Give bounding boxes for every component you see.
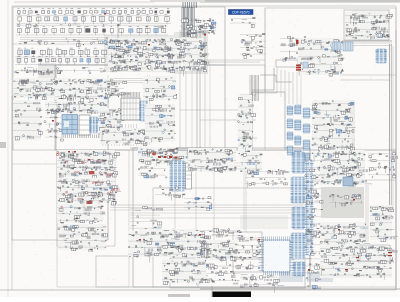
key matrix 2 xyxy=(128,231,205,263)
shaded region speaker block xyxy=(321,187,364,218)
connector lower xyxy=(138,166,167,178)
red mark xyxy=(139,239,141,241)
key matrix xyxy=(58,224,108,252)
wire xyxy=(340,45,392,47)
shaded region top right xyxy=(352,10,390,41)
wire xyxy=(340,42,392,44)
AC inlet block xyxy=(320,245,397,280)
motor driver row xyxy=(56,150,119,181)
wire xyxy=(20,37,105,39)
wire xyxy=(292,72,294,104)
wire xyxy=(288,72,290,104)
wire xyxy=(130,249,310,251)
IC IC803 bank (highlighted) xyxy=(303,108,311,161)
IC302 pin row xyxy=(62,135,102,139)
data bus to display xyxy=(182,7,194,37)
wire xyxy=(395,30,397,290)
ribbon bus down A xyxy=(280,272,302,282)
IC IC302 (highlighted grid) xyxy=(62,115,78,135)
IC IC801 bank (highlighted) xyxy=(287,106,294,155)
shaded region servo block xyxy=(104,35,204,72)
syscon IC301 area xyxy=(13,78,119,103)
red mark xyxy=(388,252,392,253)
label specks band xyxy=(16,24,166,33)
regulators xyxy=(319,222,370,260)
wire xyxy=(0,289,200,291)
right edge mid xyxy=(370,205,398,242)
right edge upper xyxy=(368,151,398,178)
relay (highlighted) xyxy=(343,177,353,186)
red part rows xyxy=(296,62,308,71)
blue label rows xyxy=(184,197,212,211)
IC row 1 xyxy=(16,8,171,16)
left of IC302 xyxy=(44,117,66,142)
servo amp IC202 xyxy=(108,38,208,76)
wire xyxy=(204,28,206,148)
power supply sec xyxy=(320,150,372,187)
syscon row2 xyxy=(45,101,110,115)
RF amp right xyxy=(312,100,355,148)
wire xyxy=(212,165,250,167)
transistor box xyxy=(233,232,262,272)
wire xyxy=(213,155,215,258)
red mark xyxy=(199,234,201,236)
IC IC601 (highlighted) xyxy=(376,49,388,63)
section frame center xyxy=(55,65,265,150)
shaded region 38-72 left xyxy=(38,63,56,80)
wire xyxy=(100,80,176,82)
wire xyxy=(212,162,250,164)
wire xyxy=(130,217,310,219)
IC IC305 (main servo) xyxy=(121,98,140,120)
IC305 top pins xyxy=(122,92,140,97)
wire drops below IC305 xyxy=(103,124,137,146)
IC IC706 (highlighted) xyxy=(293,262,306,276)
left ic col cluster xyxy=(195,240,239,266)
IC IC303 xyxy=(79,115,90,135)
shaded region right mid2 xyxy=(322,138,355,165)
page left edge line xyxy=(7,0,9,297)
wire xyxy=(107,75,109,240)
IC IC702 (highlighted) xyxy=(292,152,306,173)
section frame left tall xyxy=(12,96,108,240)
box bottom center xyxy=(170,258,305,288)
driver discrete xyxy=(57,178,121,206)
wire xyxy=(185,32,187,148)
wire xyxy=(389,44,391,210)
red mark xyxy=(258,239,260,241)
shaded region tuner sub xyxy=(174,32,208,74)
wire xyxy=(245,150,247,232)
empty box center xyxy=(252,92,285,150)
wire xyxy=(199,30,201,148)
resistor row right xyxy=(158,148,198,161)
power regulator block2 xyxy=(280,36,308,62)
shaded region mid band xyxy=(150,147,202,163)
red mark xyxy=(356,257,359,258)
dsp right parts xyxy=(305,152,328,289)
section frame bottom left2 xyxy=(57,150,129,287)
censor bar (black) xyxy=(213,292,252,298)
corner parts xyxy=(108,82,130,98)
wire xyxy=(110,204,310,206)
transistor box parts xyxy=(234,235,263,270)
tuner pack cluster xyxy=(345,12,393,40)
IC IC401 (highlighted) xyxy=(170,161,186,191)
jack board xyxy=(162,259,209,285)
wire xyxy=(174,180,176,232)
bus strip (highlighted) xyxy=(305,160,314,255)
filter block right xyxy=(318,126,356,151)
section frame bottom right xyxy=(310,150,396,287)
wire xyxy=(117,24,119,38)
title block (blue) xyxy=(229,10,254,15)
IC IC402 tall xyxy=(186,163,192,189)
section frame bottom mid inner xyxy=(153,188,310,287)
wire xyxy=(296,72,298,104)
IF block cluster xyxy=(298,38,345,76)
red mark xyxy=(88,159,90,161)
red mark xyxy=(308,269,310,271)
wire xyxy=(110,207,310,209)
wire xyxy=(110,209,310,211)
mechanism connector xyxy=(138,147,178,166)
bottom gray smudge xyxy=(168,294,190,297)
wire xyxy=(147,75,149,145)
label row blue xyxy=(195,229,242,241)
speaker text block xyxy=(329,194,362,207)
section frame right xyxy=(265,8,396,150)
upper ram parts xyxy=(55,86,108,102)
box bottom left xyxy=(96,256,198,287)
wire xyxy=(252,68,274,90)
wire xyxy=(130,212,310,214)
discrete row mid2 xyxy=(145,104,176,143)
red mark xyxy=(388,255,392,256)
wire xyxy=(170,59,265,61)
AC box xyxy=(360,245,390,261)
discrete row mid xyxy=(143,76,177,101)
servo sub box xyxy=(112,42,158,58)
display driver IC501 xyxy=(180,17,216,39)
lower left sparse xyxy=(130,206,162,235)
wire xyxy=(390,44,392,210)
shaded region above dsp xyxy=(240,215,288,229)
dsp upper cluster xyxy=(188,148,237,172)
wire xyxy=(224,7,226,150)
IC IC602 (light blue) xyxy=(332,42,353,51)
wire xyxy=(284,70,286,100)
below transistor box xyxy=(195,263,241,285)
wire xyxy=(340,40,392,42)
connector CN501 xyxy=(197,23,216,33)
wire xyxy=(367,185,369,242)
IC row 5 xyxy=(15,56,107,64)
wire xyxy=(340,74,396,76)
IC IC705 (highlighted) xyxy=(291,233,306,259)
red mark xyxy=(52,120,54,122)
IC row 2 xyxy=(16,14,171,23)
wire xyxy=(12,163,57,165)
power regulator block xyxy=(240,33,266,58)
shaded region right mid xyxy=(312,100,355,142)
wire xyxy=(100,78,176,80)
under title parts xyxy=(230,17,256,27)
IC IC701 system LSI xyxy=(259,237,295,276)
red mark xyxy=(148,44,150,46)
wire xyxy=(149,75,151,145)
wire xyxy=(243,150,245,230)
wire band under rows xyxy=(18,38,160,47)
red mark xyxy=(353,199,355,201)
ribbon bundle xyxy=(250,75,258,101)
wire xyxy=(56,149,310,151)
transistor pair group xyxy=(155,186,185,201)
red mark xyxy=(338,229,340,231)
IC IC703 (highlighted) xyxy=(291,177,306,203)
IC pin column xyxy=(198,244,208,258)
IC IC802 bank (highlighted) xyxy=(294,105,302,158)
IC row 3 xyxy=(16,26,168,35)
wire xyxy=(255,68,277,93)
wire xyxy=(104,82,170,84)
wire xyxy=(200,288,400,290)
wire xyxy=(180,95,256,110)
wire xyxy=(392,46,394,208)
below ic parts xyxy=(100,128,148,146)
wire xyxy=(264,8,266,150)
wire xyxy=(300,74,302,106)
wire xyxy=(200,119,256,121)
wire xyxy=(310,179,396,181)
scanner line top left xyxy=(14,2,154,3)
tuner frame xyxy=(344,10,389,40)
svg-text:CDP-XE570: CDP-XE570 xyxy=(232,10,250,14)
data bus to display2 xyxy=(183,2,196,8)
component box above xyxy=(276,60,298,67)
wire xyxy=(280,70,282,97)
IC IC704 (highlighted) xyxy=(292,207,306,229)
wire xyxy=(38,64,225,66)
section frame bottom left xyxy=(57,150,115,246)
IC IC304 (highlighted) xyxy=(89,117,99,133)
loading motor block xyxy=(57,204,105,228)
center col parts xyxy=(238,95,257,157)
wire xyxy=(191,30,193,148)
wire xyxy=(179,30,181,148)
ribbon bus down B xyxy=(308,273,332,282)
wire xyxy=(195,165,197,258)
wire xyxy=(212,168,246,170)
under band 2 xyxy=(15,67,106,76)
wire xyxy=(209,60,211,148)
red mark xyxy=(345,269,348,270)
wire xyxy=(340,79,390,81)
red mark xyxy=(74,151,76,153)
red mark xyxy=(296,40,299,44)
lower periphery xyxy=(140,229,202,254)
wire xyxy=(130,147,310,149)
wire xyxy=(159,46,161,65)
scanner edge shadow top xyxy=(200,0,400,3)
IC row 4 xyxy=(15,48,107,57)
wire xyxy=(211,286,213,297)
dac cluster xyxy=(240,152,263,172)
wire xyxy=(260,75,292,82)
wire xyxy=(55,65,57,150)
wire xyxy=(196,30,198,148)
wire xyxy=(20,41,100,43)
wire xyxy=(20,39,110,41)
bottom center parts xyxy=(240,274,284,293)
red resistor row xyxy=(158,156,178,159)
section frame top-left xyxy=(13,7,225,150)
parts right of IC303 xyxy=(98,108,124,139)
right edge lower xyxy=(368,249,393,278)
red mark xyxy=(204,34,206,36)
mid cluster above ic xyxy=(245,169,289,188)
wire xyxy=(12,43,108,45)
left sparse xyxy=(13,100,42,140)
mark left edge xyxy=(0,142,6,148)
wire xyxy=(150,61,260,63)
red mark xyxy=(68,151,70,153)
IC IC306 (highlighted) xyxy=(139,101,148,121)
red mark xyxy=(104,13,106,15)
section frame bottom mid xyxy=(133,148,310,287)
wire xyxy=(365,185,367,242)
